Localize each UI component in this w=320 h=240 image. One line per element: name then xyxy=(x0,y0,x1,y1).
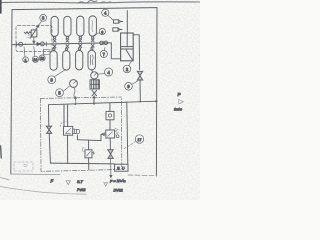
circled label 7 xyxy=(100,50,107,57)
margin triangle xyxy=(179,99,184,104)
pencil sweep bottom xyxy=(0,187,86,195)
junction dot right border xyxy=(155,100,157,102)
main manifold line xyxy=(13,43,109,45)
circled label 2 xyxy=(123,65,131,73)
circled label 9 xyxy=(125,83,133,91)
cylinder body xyxy=(121,33,134,61)
gauge wavy line to manifold xyxy=(74,87,76,104)
solid box bottom edge xyxy=(50,162,114,165)
svg-text:10: 10 xyxy=(33,58,37,62)
annotation down triangle xyxy=(66,181,70,185)
system gauge xyxy=(70,80,78,88)
solid box left edge xyxy=(49,105,51,163)
box left shutoff bowtie xyxy=(46,126,52,133)
leader for 6 xyxy=(94,33,99,36)
circled label 17 xyxy=(135,135,143,143)
svg-text:F: F xyxy=(51,178,54,183)
pump line to manifold xyxy=(93,96,95,104)
cylinder right tap line xyxy=(133,35,139,70)
frame top border xyxy=(12,8,157,10)
pencil curve bottom left xyxy=(0,178,9,181)
flow arrow gauge line xyxy=(74,97,76,100)
shutoff valve on cylinder line (bowtie vertical) xyxy=(137,71,142,80)
V2 drain circle xyxy=(116,135,119,138)
return manifold / box top xyxy=(49,101,157,105)
bottle isolation valves column 4 xyxy=(91,36,94,50)
V1 outlet line xyxy=(77,134,101,140)
svg-text:1: 1 xyxy=(25,57,27,62)
check/shutoff bowtie lower xyxy=(108,150,114,159)
circled label 5 xyxy=(56,89,64,97)
leader for 4 xyxy=(108,15,113,20)
flow arrow pump line xyxy=(93,96,95,99)
scan left edge artifact xyxy=(0,0,2,13)
scan top edge artifact xyxy=(0,2,200,3)
annotation small triangle xyxy=(104,183,108,186)
plug symbol 2 xyxy=(113,28,122,31)
supply line from top into cylinder xyxy=(126,11,128,33)
circled label 8 xyxy=(48,76,56,84)
accumulator bottle B4 bottom xyxy=(88,50,95,70)
line to valve V2 xyxy=(109,120,111,130)
V3 drain line xyxy=(88,158,90,170)
filter hatched box xyxy=(90,80,99,89)
branch down to valve V3 xyxy=(88,140,90,150)
accumulator bottle B2 bottom xyxy=(63,51,70,70)
frame right border xyxy=(155,8,158,176)
V1 pilot dashes xyxy=(61,122,67,127)
A4 label marks xyxy=(92,20,93,32)
pump shutoff bowtie xyxy=(92,90,97,95)
circled label 4 top xyxy=(102,9,109,16)
V3 side tick xyxy=(92,152,95,155)
circled label 6 xyxy=(99,28,105,34)
leader for 8 xyxy=(54,69,66,77)
svg-text:Pv92: Pv92 xyxy=(77,188,85,192)
accumulator bottle A4 top xyxy=(89,16,96,36)
valve V3 body xyxy=(85,150,92,158)
leader for 9 xyxy=(132,81,138,84)
solenoid valve V2 body xyxy=(106,130,115,138)
leader for 7 xyxy=(103,48,106,51)
dashed box around regulator xyxy=(16,26,52,52)
cylinder lower diagonal xyxy=(126,50,132,60)
accumulator bottle B1 bottom xyxy=(50,51,57,70)
circled label 1 xyxy=(23,57,29,63)
junction dot gauge line xyxy=(74,103,76,105)
circled label 13 xyxy=(39,55,45,61)
coupling right: circle pair xyxy=(100,41,103,44)
accumulator bottle A2 top xyxy=(64,16,71,36)
accumulator bottle B3 bottom xyxy=(76,51,83,70)
dashed maintenance enclosure xyxy=(41,97,122,171)
small rect under bowtie xyxy=(44,50,50,55)
svg-text:U: U xyxy=(122,167,125,171)
circled label 3 xyxy=(40,14,47,21)
svg-text:13: 13 xyxy=(40,57,44,61)
cylinder rod xyxy=(126,33,128,47)
V1 solenoid block xyxy=(73,129,80,134)
frame left border xyxy=(11,10,12,174)
junction to reducing valve branch xyxy=(109,103,111,111)
handwriting squiggle top xyxy=(78,1,97,4)
pump gauge circle xyxy=(91,72,98,79)
bottle isolation valves column 3 xyxy=(78,36,81,50)
pressure regulator PR body xyxy=(31,30,37,37)
bottle isolation valves column 2 xyxy=(66,36,69,50)
bottle isolation valves column 1 xyxy=(53,37,56,51)
V2 outlet down xyxy=(109,138,111,150)
circled label 10 xyxy=(32,56,38,62)
leader for 3 xyxy=(39,21,42,25)
line valve to return manifold xyxy=(139,80,141,101)
cylinder piston xyxy=(121,47,134,49)
accumulator bottle A1 top xyxy=(51,16,58,36)
svg-text:DV92: DV92 xyxy=(114,188,123,192)
V3 pilot dashes xyxy=(82,148,85,152)
svg-text:6: 6 xyxy=(101,30,103,34)
svg-text:S.T: S.T xyxy=(77,180,83,184)
leader for 5 xyxy=(63,86,70,92)
svg-text:3o0o: 3o0o xyxy=(174,107,182,111)
shutoff valve on manifold (triangle+circle coupling) xyxy=(37,43,40,46)
handwriting squiggle top right xyxy=(100,2,111,3)
V2 left arrow xyxy=(101,133,106,136)
junction dot valve line xyxy=(139,101,141,103)
leader for 17 xyxy=(123,141,136,149)
regulator pilot line down xyxy=(33,37,35,44)
regulator arrow xyxy=(30,25,39,39)
svg-text:17: 17 xyxy=(138,138,142,142)
circled label 14 xyxy=(105,68,113,76)
junction dot pump xyxy=(93,103,95,105)
B4 label marks xyxy=(91,55,94,65)
solenoid valve V1 body xyxy=(64,126,73,135)
frame bottom border xyxy=(11,173,60,176)
regulator spring xyxy=(24,32,31,34)
leader for 2 xyxy=(129,61,132,65)
plug symbol 1 xyxy=(114,20,123,23)
capsule B4 tail to gauge xyxy=(92,70,93,72)
manifold elbow to cylinder xyxy=(109,43,121,59)
V2 spring dashes xyxy=(115,128,118,134)
BU box xyxy=(115,164,128,171)
small dashed box bottom left xyxy=(14,162,33,171)
accumulator bottle A3 top xyxy=(77,16,84,36)
solid box right edge xyxy=(127,102,128,164)
line to bottom xyxy=(110,158,112,177)
leader for 14 xyxy=(98,73,105,76)
scan left edge artifact 2 xyxy=(0,146,2,158)
coupling left: tick and circle xyxy=(16,42,18,46)
lines from box top to valve V1 xyxy=(64,104,68,126)
orifice box xyxy=(106,111,114,119)
